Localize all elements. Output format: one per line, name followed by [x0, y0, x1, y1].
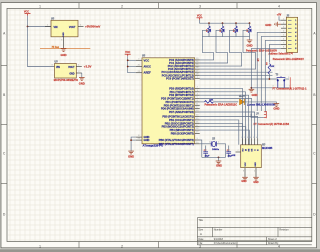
MCU U? body ATmega328 [142, 58, 195, 144]
MCU right pin PD7 [195, 111, 200, 113]
svg-text:VIN: VIN [54, 26, 58, 29]
pull-up resistor R? col 2 [222, 23, 224, 26]
svg-text:Panasonic ERA-1AEB301V: Panasonic ERA-1AEB301V [273, 58, 304, 61]
wire PD2 to transceiver [200, 95, 249, 138]
svg-text:1: 1 [39, 244, 41, 248]
svg-text:B: B [3, 93, 5, 97]
ground line under pull-ups [202, 37, 249, 40]
MCU right pin PB6 [195, 139, 200, 141]
svg-text:6: 6 [283, 39, 284, 41]
svg-text:2: 2 [218, 142, 219, 144]
junction dots MCU power [127, 59, 129, 61]
svg-text:Number: Number [214, 229, 223, 232]
U?1 pin 1 (VIN) [45, 26, 51, 28]
svg-text:1: 1 [209, 142, 210, 144]
svg-text:PD7 (AIN1/PCINT23): PD7 (AIN1/PCINT23) [169, 110, 194, 114]
MCU right pin PC6 [195, 77, 200, 79]
svg-text:PB0 (PCINT0/CLKO/ICP1): PB0 (PCINT0/CLKO/ICP1) [162, 115, 194, 119]
orange directive line [40, 47, 90, 49]
wire address line 1 to MCU [200, 30, 214, 60]
connector row wires staircase down [257, 32, 281, 111]
connector pin 3 [281, 27, 286, 29]
svg-text:2: 2 [288, 77, 289, 79]
wire PD3 to transceiver [200, 99, 252, 139]
wire PD1 to transceiver [200, 92, 246, 138]
svg-text:D:\Users\Documents\..: D:\Users\Documents\.. [214, 242, 238, 245]
MCU right pin PD2 [195, 94, 200, 96]
ground symbol transceiver 1 [242, 177, 248, 180]
svg-text:PB7 (XTAL2/TOSC2/PCINT7): PB7 (XTAL2/TOSC2/PCINT7) [159, 142, 194, 146]
wire PB0 to transceiver [200, 117, 258, 139]
svg-text:PB2 (SS/OC1B/PCINT2): PB2 (SS/OC1B/PCINT2) [165, 121, 194, 125]
svg-text:GND: GND [265, 23, 271, 27]
wire PB2 to transceiver [200, 123, 243, 145]
MCU right pin PD4 [195, 101, 200, 103]
transceiver left pin [236, 151, 241, 153]
svg-text:VCC: VCC [197, 15, 202, 18]
transceiver top pin 4 [251, 138, 253, 145]
wire PC5 long [200, 74, 273, 76]
connector pin 7 [281, 43, 286, 45]
svg-text:4: 4 [250, 137, 251, 139]
regulator U?2 body [55, 64, 77, 79]
svg-text:2: 2 [244, 137, 245, 139]
transceiver U? body [241, 145, 262, 168]
svg-text:PC6 (PCINT14/RESET): PC6 (PCINT14/RESET) [166, 76, 194, 80]
wire VCC to U?1 VIN [28, 16, 52, 27]
svg-text:Revision: Revision [279, 229, 289, 232]
MCU left pin VCC [136, 59, 142, 61]
ground symbol mid right [249, 89, 255, 92]
svg-text:PB6 (XTAL1/TOSC1/PCINT6): PB6 (XTAL1/TOSC1/PCINT6) [159, 138, 194, 142]
U?2 GND pin [76, 72, 82, 74]
transceiver top pin 2 [245, 138, 247, 145]
svg-text:Address Selection 1*4: Address Selection 1*4 [269, 52, 294, 55]
svg-text:7: 7 [238, 150, 239, 152]
svg-text:FT Connector(J) 1-1677011-1: FT Connector(J) 1-1677011-1 [273, 88, 308, 91]
svg-text:10K: 10K [209, 99, 213, 101]
svg-text:GND: GND [255, 162, 257, 167]
svg-text:U?: U? [142, 54, 146, 57]
ground symbol below U?1 [61, 49, 67, 52]
svg-text:GND: GND [216, 164, 222, 168]
svg-text:Sheet of: Sheet of [268, 238, 277, 241]
transceiver top pin 6 [257, 138, 259, 145]
MCU right pin PC5 [195, 74, 200, 76]
svg-text:PB5 (SCK/PCINT5): PB5 (SCK/PCINT5) [171, 132, 194, 136]
svg-text:PD4 (PCINT20/XCK/T0): PD4 (PCINT20/XCK/T0) [166, 100, 194, 104]
svg-text:Panasonic ERA-1AEB103V: Panasonic ERA-1AEB103V [246, 50, 277, 53]
MCU right pin PB1 [195, 119, 200, 121]
svg-text:PB3 (MOSI/OC2A/PCINT3): PB3 (MOSI/OC2A/PCINT3) [162, 125, 194, 129]
svg-text:File:: File: [198, 243, 203, 245]
svg-text:22pF: 22pF [205, 156, 211, 158]
MCU left pin AVCC [136, 66, 142, 68]
svg-text:3: 3 [247, 137, 248, 139]
wire PC6 to switch [200, 78, 278, 80]
MCU left pin GND [136, 139, 142, 141]
MCU right pin PC1 [195, 62, 200, 64]
MCU right pin PC4 [195, 71, 200, 73]
svg-text:5: 5 [283, 35, 284, 37]
svg-text:Drawn By:: Drawn By: [268, 242, 279, 245]
svg-text:Size: Size [198, 229, 203, 232]
svg-text:8: 8 [243, 171, 244, 173]
svg-text:Date:: Date: [198, 238, 204, 241]
MCU right pin PB4 [195, 129, 200, 131]
svg-text:4: 4 [254, 171, 255, 173]
svg-text:A: A [200, 232, 202, 236]
svg-text:16MHz: 16MHz [212, 149, 220, 151]
title block [197, 218, 311, 245]
connector pin 4 [281, 31, 286, 33]
svg-text:J?: J? [286, 14, 289, 17]
MCU right pin PD5 [195, 104, 200, 106]
svg-text:PD6 (PCINT22/OC0A/AIN0): PD6 (PCINT22/OC0A/AIN0) [161, 107, 194, 111]
wire address line 4 to MCU [200, 30, 256, 69]
resistor R? 512 horizontal [205, 101, 214, 104]
U?1 pin 3 (GND) down [63, 37, 65, 49]
ground symbol pull-ups [247, 40, 253, 43]
MCU GND wire to ground [131, 137, 136, 151]
svg-text:B: B [313, 93, 315, 97]
svg-text:75 Deg: 75 Deg [52, 47, 60, 49]
wire to FT connector 2 [251, 114, 264, 118]
regulator U?1 body [51, 20, 78, 37]
wire address line 2 to MCU [200, 30, 228, 63]
MCU right pin PB0 [195, 116, 200, 118]
svg-text:VOUT: VOUT [69, 26, 76, 29]
wire pin8 to GND below [251, 48, 281, 89]
ground symbol transceiver 2 [253, 177, 259, 180]
svg-text:PD3 (PCINT19/OC2B/INT1): PD3 (PCINT19/OC2B/INT1) [161, 97, 194, 101]
ground symbol crystal [216, 161, 222, 164]
MCU right pin PC0 [195, 59, 200, 61]
wire VCC column down to U?2 VIN [28, 27, 55, 67]
transceiver top pin 3 [248, 138, 250, 145]
junction on rail col 2 [222, 22, 224, 24]
bottom wire crystal [202, 156, 226, 158]
VCC rail [200, 20, 250, 23]
connector pin 6 [281, 39, 286, 41]
svg-text:GND: GND [144, 138, 150, 142]
junction on rail col 3 [235, 22, 237, 24]
svg-text:+3.3V: +3.3V [84, 65, 92, 69]
svg-text:FT Connector(J) 167748-1XB4: FT Connector(J) 167748-1XB4 [254, 123, 290, 126]
svg-text:10K: 10K [270, 66, 274, 68]
svg-text:8: 8 [283, 47, 284, 49]
svg-text:6: 6 [256, 137, 257, 139]
svg-text:U?: U? [55, 61, 59, 64]
wire XTAL2 top edge [200, 143, 211, 145]
wire PD7 to transceiver [200, 112, 255, 138]
wire PB4 to transceiver [200, 130, 250, 145]
connector pin 2 [281, 23, 286, 25]
svg-text:PB1 (OC1A/PCINT1): PB1 (OC1A/PCINT1) [169, 118, 194, 122]
connector pin 1 [281, 19, 286, 21]
svg-text:AREF: AREF [144, 71, 152, 75]
MCU right pin PD3 [195, 98, 200, 100]
MCU right pin PB5 [195, 133, 200, 135]
svg-text:VOUT: VOUT [68, 67, 75, 69]
svg-text:2: 2 [283, 22, 284, 24]
U?1 pin 2 (VOUT) [78, 26, 84, 28]
svg-text:4: 4 [278, 4, 280, 8]
svg-text:GND: GND [63, 32, 65, 37]
wire pin7 to 10K resistor [269, 44, 281, 62]
svg-text:1: 1 [39, 4, 41, 8]
wire GND pin down [81, 73, 83, 78]
svg-text:GND: GND [246, 44, 252, 48]
MCU right pin PB7 [195, 143, 200, 145]
MCU right pin PD0 [195, 87, 200, 89]
svg-text:GND: GND [273, 106, 279, 110]
junction crystal gnd [218, 157, 220, 159]
small red connector mark [289, 77, 291, 89]
sideways ground at pin2 [275, 22, 281, 27]
svg-text:Panasonic ERA-1AEB512C: Panasonic ERA-1AEB512C [205, 103, 238, 107]
ground symbol LED [274, 104, 280, 107]
transceiver top pin 1 [242, 138, 244, 145]
svg-text:GND: GND [241, 180, 247, 183]
junction at VCC column [27, 26, 29, 28]
wire PD4 to resistor [200, 101, 205, 103]
U?2 VOUT pin [76, 66, 82, 68]
svg-text:U?: U? [262, 144, 266, 147]
svg-text:VIN: VIN [56, 67, 60, 69]
junction on rail col 1 [208, 22, 210, 24]
pull-up resistor R? col 3 [235, 23, 237, 26]
svg-text:AVCC: AVCC [144, 65, 151, 69]
svg-text:PD0 (RXD/PCINT16): PD0 (RXD/PCINT16) [169, 86, 194, 90]
MCU right pin PB3 [195, 126, 200, 128]
svg-text:U?: U? [51, 17, 55, 20]
svg-text:GND: GND [79, 81, 85, 85]
MCU right pin PB2 [195, 122, 200, 124]
svg-text:GND: GND [69, 74, 74, 76]
svg-text:PB4 (MISO/PCINT4): PB4 (MISO/PCINT4) [170, 128, 194, 132]
wire VCC to MCU power pins [128, 56, 136, 72]
junction on rail col 4 [249, 22, 251, 24]
svg-text:Title: Title [198, 219, 203, 222]
svg-text:VCC: VCC [125, 51, 130, 54]
svg-text:5: 5 [253, 137, 254, 139]
svg-text:GND: GND [251, 93, 257, 97]
wire PC4 long [200, 71, 273, 73]
svg-text:3: 3 [199, 4, 201, 8]
connector J? address selection body [286, 17, 297, 52]
MCU left pin AREF [136, 72, 142, 74]
svg-text:VCC: VCC [245, 162, 247, 167]
svg-text:4: 4 [283, 31, 284, 33]
MCU right pin PC3 [195, 68, 200, 70]
ground symbol below U?2 [79, 78, 85, 81]
connector pin 8 [281, 47, 286, 49]
wire PB3 to transceiver [200, 127, 246, 145]
wire LED to ground [244, 102, 276, 104]
svg-text:9/1/2018: 9/1/2018 [214, 239, 224, 241]
transceiver top pin 5 [254, 138, 256, 145]
wire XTAL1 [200, 140, 202, 157]
transceiver bottom pins [244, 168, 246, 178]
pull-up resistor R? col 4 [249, 23, 251, 26]
svg-text:GND: GND [60, 53, 66, 57]
svg-text:GND: GND [253, 181, 259, 184]
MCU right pin PD1 [195, 91, 200, 93]
svg-text:PD1 (TXD/PCINT17): PD1 (TXD/PCINT17) [170, 90, 194, 94]
wire PB1 to transceiver [200, 120, 239, 145]
svg-text:+5V/500mV: +5V/500mV [85, 25, 100, 29]
svg-text:7: 7 [283, 43, 284, 45]
wire switch bottom to gnd [251, 87, 284, 89]
MCU right pin PC2 [195, 65, 200, 67]
wire switch right pin [284, 78, 289, 80]
svg-text:2: 2 [121, 4, 123, 8]
MCU right pin PD6 [195, 108, 200, 110]
svg-text:MCP1700-3302E/TO: MCP1700-3302E/TO [54, 78, 78, 82]
ground symbol below MCU [128, 151, 134, 154]
svg-text:3: 3 [283, 26, 284, 28]
svg-text:VCC: VCC [144, 58, 150, 62]
svg-text:Lumex SML-LX0603GW: Lumex SML-LX0603GW [247, 103, 276, 107]
svg-text:MAX3485: MAX3485 [262, 147, 273, 150]
svg-text:GND: GND [128, 154, 134, 158]
connector pin 5 [281, 35, 286, 37]
wire address line 3 to MCU [200, 30, 242, 66]
svg-text:1: 1 [241, 137, 242, 139]
pull-up resistor R? col 1 [208, 23, 210, 26]
wire PD0 to transceiver [200, 88, 243, 138]
MCU left pin GND [136, 136, 142, 138]
svg-text:1: 1 [283, 18, 284, 20]
svg-text:2: 2 [121, 244, 123, 248]
